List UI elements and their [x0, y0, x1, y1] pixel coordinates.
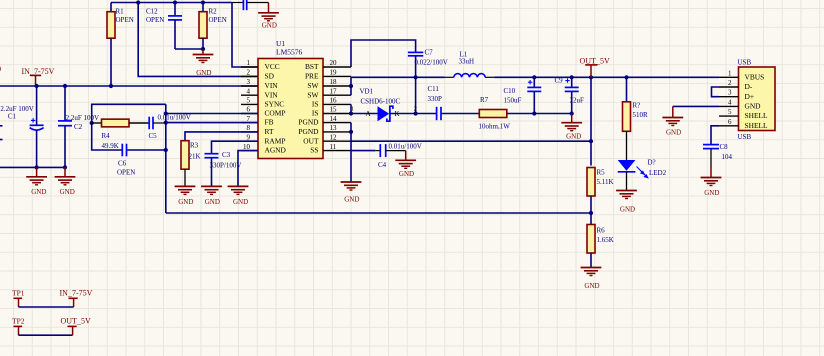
svg-text:GND: GND	[584, 282, 599, 290]
svg-text:GND: GND	[31, 188, 46, 196]
svg-text:PRE: PRE	[305, 72, 319, 81]
svg-text:10: 10	[243, 143, 251, 151]
svg-text:OPEN: OPEN	[117, 169, 135, 177]
left edge wire stub B	[0, 139, 3, 141]
svg-text:6: 6	[728, 118, 732, 126]
capacitor C11 330P	[416, 85, 480, 120]
resistor R1 (OPEN)	[107, 3, 134, 87]
capacitor C1 2.2uF 100V	[0, 86, 43, 167]
svg-text:GND: GND	[620, 206, 635, 214]
resistor R9 510R	[623, 77, 649, 131]
svg-text:GND: GND	[262, 21, 277, 29]
svg-text:RT: RT	[265, 127, 274, 136]
pin 12 OUT	[303, 133, 351, 145]
junction loop/R4 left	[90, 121, 94, 125]
svg-text:0: 0	[0, 65, 1, 74]
capacitor C10 150uF	[504, 77, 542, 113]
svg-text:C8: C8	[720, 143, 729, 151]
junction OUT sense	[589, 139, 593, 143]
svg-text:330P: 330P	[428, 95, 443, 103]
svg-text:17: 17	[330, 87, 338, 95]
svg-text:OUT_5V: OUT_5V	[61, 317, 91, 326]
svg-text:FB: FB	[265, 118, 274, 127]
wire D-/D+ short	[712, 87, 720, 97]
wire input cap ground bus	[0, 166, 65, 168]
wire TP2 to OUT port	[19, 334, 73, 336]
wire RT pin8 feed	[185, 132, 258, 141]
svg-text:2.2uF 100V: 2.2uF 100V	[0, 105, 33, 113]
capacitor C12 (OPEN)	[146, 3, 203, 50]
svg-text:22uF: 22uF	[570, 97, 585, 105]
pin 15 IS	[312, 106, 351, 118]
wire AGND pin10 feed	[238, 151, 258, 187]
svg-text:R2: R2	[209, 7, 218, 15]
ground under R3	[175, 186, 196, 205]
power port OUT_5V	[580, 57, 610, 78]
ground right of C4	[395, 151, 416, 179]
test point TP1	[12, 288, 25, 307]
connector USB body	[738, 59, 776, 141]
svg-text:104: 104	[722, 153, 733, 161]
resistor R4 49.9K	[92, 119, 150, 150]
svg-text:GND: GND	[666, 128, 681, 136]
capacitor VCC decoupling (top edge)	[232, 0, 269, 10]
ground under C2	[55, 167, 76, 196]
svg-text:SD: SD	[265, 72, 275, 81]
svg-text:SW: SW	[307, 90, 318, 99]
junction rail/C9	[570, 75, 574, 79]
pin 8 RT	[241, 124, 274, 136]
junction C2 ground	[63, 165, 67, 169]
junction C10/ground bus	[532, 111, 536, 115]
wire output down to divider	[590, 77, 592, 165]
svg-text:5.11K: 5.11K	[597, 178, 614, 186]
svg-text:11: 11	[330, 143, 337, 151]
svg-text:PGND: PGND	[298, 127, 319, 136]
svg-text:20: 20	[330, 59, 338, 67]
ground under AGND	[228, 186, 249, 205]
junction rail / C1	[35, 84, 39, 88]
svg-text:SW: SW	[307, 81, 318, 90]
pin 18 SW	[307, 78, 351, 90]
svg-text:OPEN: OPEN	[146, 16, 164, 24]
wire BST loop	[351, 40, 416, 67]
svg-text:VIN: VIN	[265, 90, 279, 99]
svg-text:R1: R1	[116, 7, 125, 15]
wire USB GND pin4	[673, 105, 719, 107]
pin 19 PRE	[305, 69, 351, 81]
svg-text:OPEN: OPEN	[116, 16, 134, 24]
wire OUT sense pin12	[351, 140, 591, 142]
svg-text:GND: GND	[233, 198, 248, 206]
svg-text:C12: C12	[146, 7, 158, 15]
capacitor C7 0.022/100V	[408, 49, 448, 78]
svg-text:LM5576: LM5576	[276, 48, 303, 57]
junction loop FB	[164, 121, 168, 125]
USB pin 6 SHELL	[719, 118, 768, 130]
USB pin 4 GND	[719, 98, 761, 110]
capacitor C4 0.01u/100V	[375, 142, 421, 169]
pin 7 FB	[241, 115, 274, 127]
wire SHELL to C8	[711, 126, 719, 145]
wire RAMP pin9 feed	[212, 141, 259, 154]
USB pin 2 D-	[719, 79, 753, 91]
wire SD pin2 feed	[138, 3, 258, 77]
junction top bus / C12	[173, 0, 177, 4]
svg-text:0.022/100V: 0.022/100V	[415, 59, 448, 67]
svg-text:19: 19	[330, 69, 338, 77]
svg-text:18: 18	[330, 78, 338, 86]
svg-text:SYNC: SYNC	[265, 100, 285, 109]
svg-text:R5: R5	[597, 168, 606, 176]
svg-text:C4: C4	[378, 161, 387, 169]
wire divider to FB network	[166, 212, 591, 214]
pin 14 PGND	[298, 115, 351, 127]
svg-text:VBUS: VBUS	[745, 72, 765, 81]
svg-text:7: 7	[247, 115, 251, 123]
svg-text:SHELL: SHELL	[745, 121, 768, 130]
junction rail/OUT port	[589, 75, 593, 79]
svg-text:10ohm,1W: 10ohm,1W	[479, 122, 511, 130]
svg-text:TP1: TP1	[12, 288, 25, 297]
svg-text:D+: D+	[745, 92, 755, 101]
wire IS pins 15-16 junction	[350, 104, 352, 113]
wire TP1 to IN port	[19, 306, 74, 308]
wire SW node	[351, 76, 445, 78]
svg-text:PGND: PGND	[298, 118, 319, 127]
ground under C8	[701, 168, 722, 198]
junction rail/R9	[624, 75, 628, 79]
svg-text:GND: GND	[344, 196, 359, 204]
svg-text:33uH: 33uH	[459, 58, 475, 66]
svg-text:IS: IS	[312, 100, 319, 109]
wire OUT_5V rail	[494, 76, 719, 78]
USB pin 3 D+	[719, 89, 754, 101]
wire SW pins 17-18 junction	[350, 77, 352, 95]
LED D? LED2	[618, 131, 667, 190]
svg-text:1: 1	[728, 69, 732, 77]
capacitor C6 OPEN	[117, 144, 135, 177]
svg-text:4: 4	[728, 98, 732, 106]
svg-text:4: 4	[247, 87, 251, 95]
svg-text:VD1: VD1	[360, 88, 374, 96]
wire IN_7-75V rail	[0, 85, 258, 87]
ground top right (VCC cap)	[258, 3, 279, 30]
svg-text:16: 16	[330, 97, 338, 105]
power port OUT_5V at TP2	[61, 317, 91, 336]
capacitor C8 104	[703, 143, 733, 168]
svg-text:C6: C6	[118, 160, 127, 168]
svg-text:VCC: VCC	[265, 62, 280, 71]
svg-text:C11: C11	[428, 85, 440, 93]
resistor R2 (OPEN)	[199, 3, 227, 50]
svg-text:13: 13	[330, 124, 338, 132]
svg-text:3: 3	[247, 78, 251, 86]
pin 4 VIN	[241, 87, 278, 99]
junction rail / C2	[63, 84, 67, 88]
svg-text:6: 6	[247, 106, 251, 114]
wire SS pin11	[351, 150, 375, 152]
junction C1 ground	[35, 165, 39, 169]
junction rail / R1	[109, 84, 113, 88]
svg-text:TP2: TP2	[12, 317, 25, 326]
ground under R6	[581, 268, 602, 291]
svg-text:C1: C1	[8, 112, 17, 120]
svg-text:5: 5	[728, 108, 732, 116]
pin 20 BST	[305, 59, 351, 71]
pin 11 SS	[310, 143, 351, 155]
svg-text:GND: GND	[205, 198, 220, 206]
junction SW/C7	[414, 75, 418, 79]
wire PGND pins 13-14	[350, 123, 352, 182]
ground under C1	[26, 167, 47, 196]
svg-text:AGND: AGND	[265, 146, 287, 155]
svg-text:1: 1	[351, 106, 354, 113]
svg-text:330P/100V: 330P/100V	[210, 162, 242, 170]
svg-text:R?: R?	[633, 102, 641, 110]
ground under PGND	[341, 182, 362, 204]
svg-text:IS: IS	[312, 109, 319, 118]
svg-text:USB: USB	[738, 133, 752, 141]
power port IN_7-75V	[22, 67, 55, 86]
left edge wire stub A	[0, 125, 3, 127]
svg-text:SS: SS	[310, 146, 318, 155]
svg-text:2: 2	[728, 79, 732, 87]
svg-text:R7: R7	[480, 96, 489, 104]
junction top bus / R2	[201, 0, 205, 4]
svg-text:15: 15	[330, 106, 338, 114]
svg-text:R6: R6	[597, 226, 606, 234]
svg-text:8: 8	[247, 124, 251, 132]
svg-text:VIN: VIN	[265, 81, 279, 90]
svg-text:CSHD6-100C: CSHD6-100C	[361, 98, 401, 106]
svg-text:RAMP: RAMP	[265, 136, 286, 145]
svg-text:R4: R4	[102, 132, 111, 140]
svg-text:D-: D-	[745, 82, 753, 91]
svg-text:C7: C7	[425, 49, 434, 57]
wire compensation loop	[92, 104, 166, 213]
svg-text:GND: GND	[60, 188, 75, 196]
svg-text:12: 12	[330, 133, 338, 141]
svg-text:5: 5	[247, 97, 251, 105]
pin 5 SYNC	[241, 97, 284, 109]
svg-text:9: 9	[247, 133, 251, 141]
wire FB pin7	[166, 122, 258, 124]
pin 2 SD	[241, 69, 275, 81]
svg-text:R3: R3	[190, 142, 199, 150]
svg-text:3: 3	[728, 89, 732, 97]
op-amp U1 LM5576 body	[258, 39, 323, 159]
junction divider	[589, 211, 593, 215]
left edge clipped label	[0, 65, 1, 74]
svg-text:D?: D?	[648, 159, 656, 167]
inductor L1 33uH	[445, 51, 494, 78]
svg-text:1.65K: 1.65K	[597, 236, 614, 244]
junction diode cathode / SW	[414, 111, 418, 115]
test point TP2	[12, 317, 25, 336]
wire COMP pin6	[166, 113, 258, 115]
svg-text:SHELL: SHELL	[745, 111, 768, 120]
svg-text:510R: 510R	[633, 111, 649, 119]
svg-text:2: 2	[247, 69, 251, 77]
pin 9 RAMP	[241, 133, 285, 145]
diode VD1 CSHD6-100C	[351, 88, 417, 122]
resistor R6 1.65K	[587, 225, 614, 268]
svg-text:C5: C5	[149, 132, 158, 140]
junction PGND	[349, 130, 353, 134]
svg-text:OPEN: OPEN	[209, 16, 227, 24]
svg-text:C10: C10	[504, 87, 516, 95]
svg-text:GND: GND	[745, 102, 762, 111]
svg-text:C2: C2	[74, 123, 83, 131]
pin 3 VIN	[241, 78, 278, 90]
resistor R3 21K	[181, 141, 201, 187]
capacitor C5 0.01u/100V	[149, 114, 191, 141]
svg-text:1: 1	[247, 59, 251, 67]
USB pin 1 VBUS	[719, 69, 764, 81]
svg-text:49.9K: 49.9K	[102, 142, 119, 150]
svg-text:GND: GND	[178, 198, 193, 206]
pin 13 PGND	[298, 124, 351, 136]
wire snubber ground bus	[534, 113, 571, 115]
svg-text:LED2: LED2	[649, 169, 667, 177]
resistor R7 10ohm 1W	[479, 96, 535, 130]
junction C9/ground bus	[570, 111, 574, 115]
capacitor C2 2.2uF 100V	[58, 86, 99, 167]
svg-text:OUT: OUT	[303, 136, 319, 145]
svg-text:0.01u/100V: 0.01u/100V	[389, 142, 422, 150]
pin 6 COMP	[241, 106, 285, 118]
junction SW pins	[349, 84, 353, 88]
svg-text:150uF: 150uF	[504, 97, 522, 105]
ground under C3	[201, 186, 222, 205]
svg-text:K: K	[395, 110, 400, 118]
pin 16 IS	[312, 97, 351, 109]
svg-text:GND: GND	[704, 189, 719, 197]
junction top bus / R-SD wire	[136, 0, 140, 4]
svg-text:C9: C9	[555, 77, 564, 85]
pin 17 SW	[307, 87, 351, 99]
svg-text:A: A	[366, 110, 371, 118]
svg-text:USB: USB	[738, 59, 752, 67]
junction R2/C12 ground node	[201, 47, 205, 51]
power port IN_7-75V at TP1	[60, 288, 93, 307]
junction IS pins	[349, 111, 353, 115]
USB pin 5 SHELL	[719, 108, 768, 120]
ground under C9	[561, 114, 582, 141]
capacitor C9 22uF	[555, 77, 585, 114]
pin 1 VCC	[241, 59, 280, 71]
resistor R5 5.11K	[587, 168, 614, 225]
svg-text:BST: BST	[305, 62, 319, 71]
wire SW to diode cathode	[415, 77, 417, 113]
wire VCC pin1 feed	[232, 3, 258, 68]
svg-text:21K: 21K	[189, 153, 201, 161]
svg-text:GND: GND	[399, 170, 414, 178]
svg-text:C3: C3	[222, 151, 231, 159]
svg-text:IN_7-75V: IN_7-75V	[60, 288, 93, 297]
capacitor C3 330P/100V	[205, 151, 242, 186]
junction loop bottom	[164, 148, 168, 152]
ground under LED	[616, 191, 637, 214]
svg-text:COMP: COMP	[265, 109, 286, 118]
svg-text:2.2uF 100V: 2.2uF 100V	[66, 114, 99, 122]
ground under R2/C12	[193, 49, 214, 77]
svg-text:GND: GND	[566, 132, 581, 140]
junction rail/C10	[532, 75, 536, 79]
svg-text:14: 14	[330, 115, 338, 123]
wire top bus VCC-feed	[111, 2, 232, 4]
junction loop COMP	[164, 111, 168, 115]
svg-text:0.01u/100V: 0.01u/100V	[158, 114, 191, 122]
pin 10 AGND	[241, 143, 287, 155]
ground USB pin4	[662, 106, 683, 136]
